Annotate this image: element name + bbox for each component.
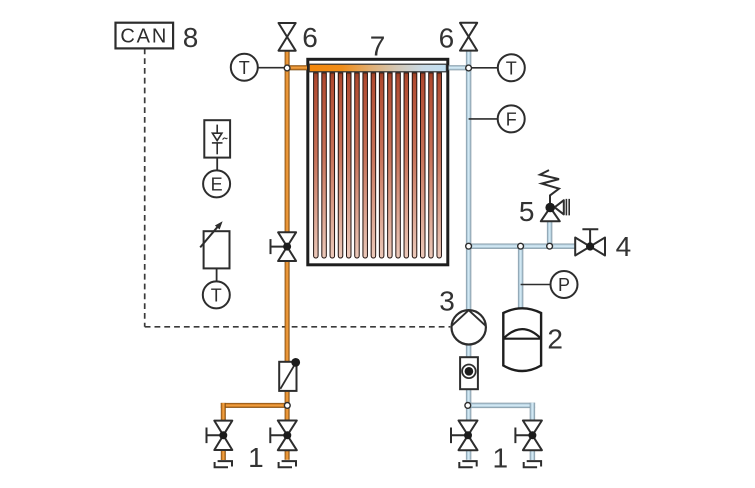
check valve (gravity brake) box: [279, 362, 296, 391]
vessel membrane dome: [503, 329, 541, 339]
wire: blue stub pipe from collector header: [449, 65, 472, 70]
collector header manifold with gradient: [309, 64, 446, 72]
vessel membrane line: [503, 338, 541, 340]
svg-text:5: 5: [519, 196, 535, 227]
svg-text:F: F: [506, 110, 517, 130]
outside temperature sensor box: [204, 231, 230, 268]
svg-text:1: 1: [493, 443, 509, 474]
collector U1 frame: [308, 59, 448, 264]
svg-text:3: 3: [439, 286, 455, 317]
connector box to sensor E: [216, 158, 218, 170]
collector absorber tubes: [314, 73, 442, 258]
sensor T2 connector line: [469, 67, 498, 69]
safety valve 5 spring: [540, 170, 559, 203]
drain outlet 1a: [215, 461, 232, 467]
wire: blue return pipe, main vertical run: [466, 51, 471, 460]
junction node at right drain branch: [465, 403, 471, 409]
wire: orange stub pipe to collector header: [285, 65, 307, 70]
svg-text:4: 4: [616, 231, 632, 262]
wire: orange stub below left drain valve: [221, 448, 226, 460]
wire: blue stub under safety valve: [547, 219, 552, 249]
wire: orange solar flow pipe, main vertical run: [285, 51, 290, 460]
junction node at left drain branch: [284, 403, 290, 409]
drain outlet 1d: [524, 461, 541, 467]
diagonal arrow across box: [200, 226, 218, 248]
connector box to sensor T3: [216, 268, 218, 281]
CAN controller box: [116, 23, 174, 49]
drain valve 1b (bottom left of pipe): [278, 421, 297, 451]
sensor T1 circle: [231, 54, 258, 81]
flow indicator under pump: [460, 357, 478, 389]
wire: orange branch vertical to left drain valve: [221, 403, 226, 431]
wire: blue branch vertical to right drain valve: [530, 403, 535, 431]
svg-text:T: T: [211, 286, 222, 306]
sensor F circle: [498, 105, 525, 132]
drain valve 1d (bottom far right): [523, 421, 542, 451]
drain outlet 1c: [459, 461, 476, 467]
svg-text:8: 8: [183, 22, 199, 53]
svg-text:6: 6: [439, 22, 455, 53]
safety valve 5 ball: [545, 203, 555, 213]
svg-text:P: P: [558, 275, 570, 295]
sensor F connector line: [469, 118, 498, 120]
wire: blue stub below right drain valve: [530, 448, 535, 460]
wire: orange branch horizontal at bottom left: [221, 403, 290, 408]
junction node at vessel branch: [518, 243, 524, 249]
svg-text:T: T: [506, 59, 517, 79]
safety valve 5 outlet bars: [566, 199, 569, 216]
wire: dashed CAN bus horizontal run to pump: [145, 326, 451, 328]
pump 3 circle: [452, 310, 486, 344]
sensor T1 connector line: [259, 67, 287, 69]
wire: dashed CAN bus vertical run: [144, 48, 146, 326]
valve 6 right (air vent): [460, 23, 477, 51]
ball valve on solar flow pipe: [278, 232, 296, 261]
sensor P connector line: [521, 284, 551, 286]
valve 4 (fill valve) bowtie: [575, 238, 605, 256]
svg-text:CAN: CAN: [120, 25, 168, 47]
valve 4 stem and handle: [582, 229, 598, 246]
valve 6 left (air vent): [279, 23, 296, 51]
wire: blue drop to expansion vessel: [518, 244, 523, 310]
sensor P circle: [551, 271, 578, 298]
drain outlet 1b: [279, 461, 296, 467]
svg-text:1: 1: [248, 442, 264, 473]
safety valve 5 outlet triangle: [555, 200, 564, 214]
expansion vessel 2: [503, 308, 541, 371]
svg-text:E: E: [211, 175, 223, 195]
junction node at safety valve branch: [547, 243, 553, 249]
wire: blue horizontal run to valve 4: [466, 244, 575, 249]
irradiation sensor box: [204, 120, 230, 157]
svg-text:T: T: [239, 58, 250, 78]
junction node at return corner: [466, 243, 472, 249]
wire: blue branch horizontal at bottom right: [466, 403, 535, 408]
sensor T2 circle: [498, 54, 525, 81]
svg-text:7: 7: [370, 31, 386, 62]
pump impeller chords: [452, 310, 486, 326]
photodiode symbol inside box: [212, 125, 227, 155]
drain valve 1a (bottom far left): [214, 421, 232, 450]
junction node at right header: [466, 65, 472, 71]
sensor E circle: [203, 170, 230, 197]
svg-text:6: 6: [302, 22, 318, 53]
svg-text:2: 2: [547, 324, 563, 355]
safety valve 5 body triangle: [541, 208, 560, 222]
sensor T3 circle: [203, 281, 230, 308]
junction node at left header: [284, 65, 290, 71]
drain valve 1c (bottom middle right): [459, 421, 478, 451]
